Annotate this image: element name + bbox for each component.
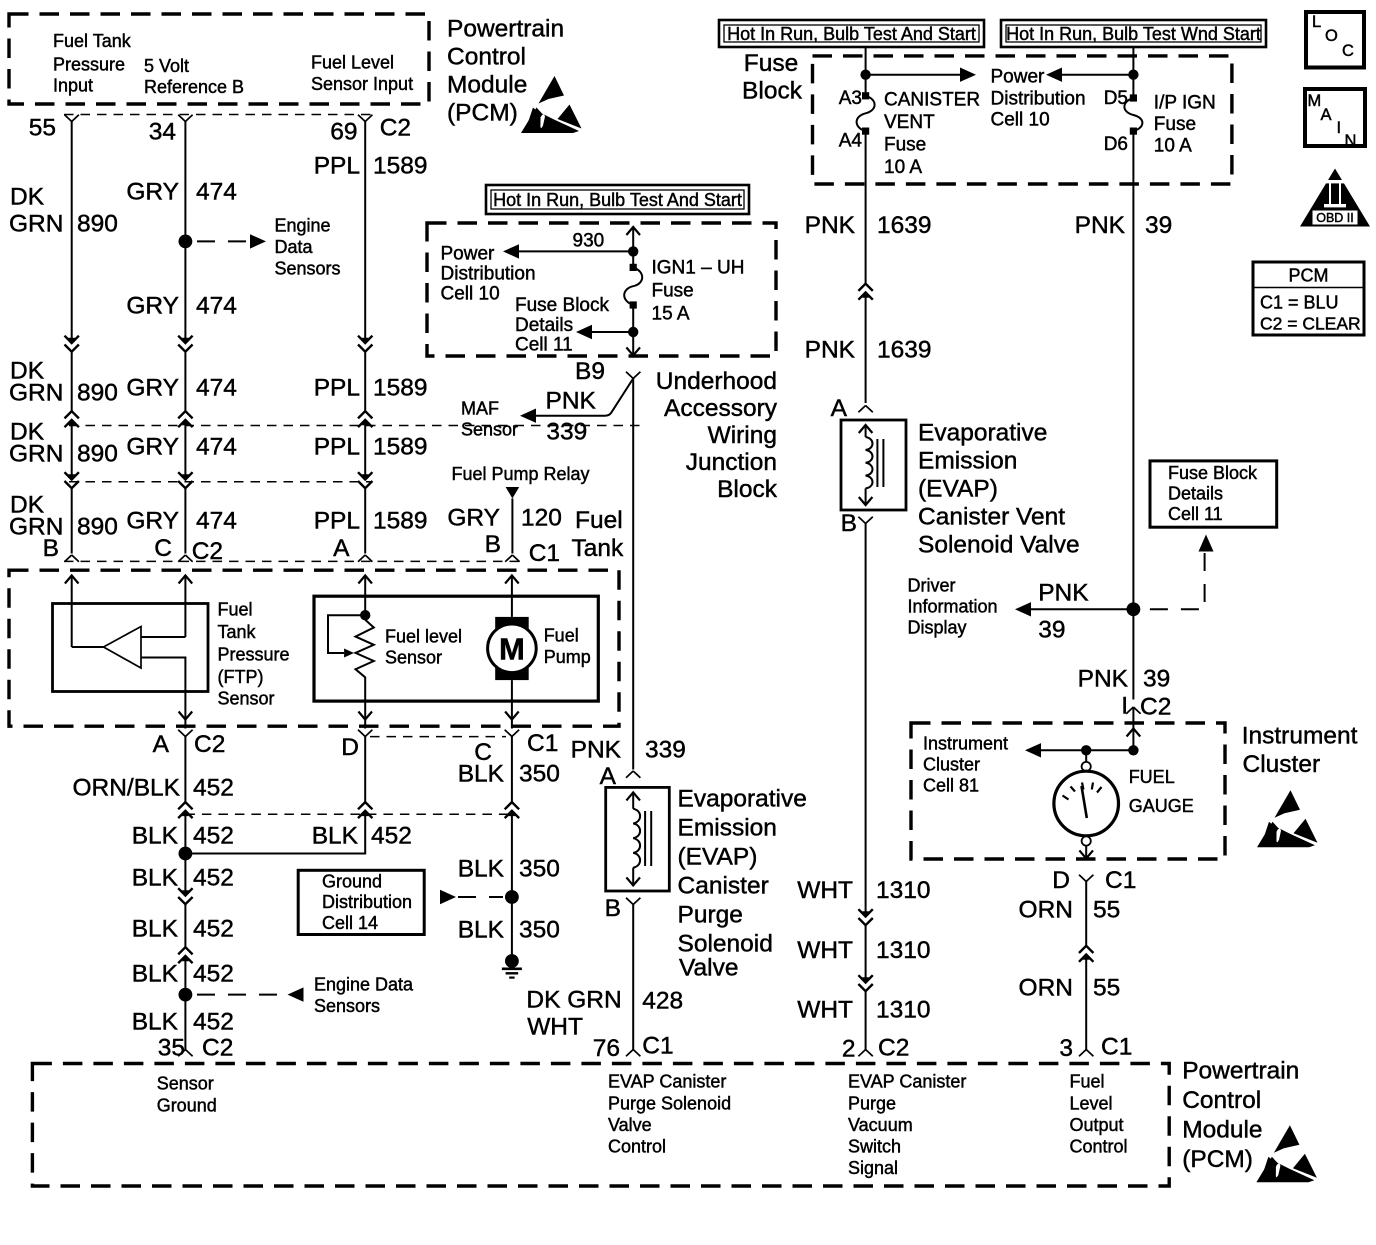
- label MAF Sensor: [461, 399, 518, 440]
- svg-text:Underhood: Underhood: [656, 368, 777, 395]
- svg-text:BLK: BLK: [132, 1009, 179, 1036]
- arrowhead up fuel level sensor: [358, 576, 372, 584]
- svg-text:C1: C1: [529, 540, 560, 567]
- svg-text:BLK: BLK: [132, 865, 179, 892]
- svg-text:Level: Level: [1070, 1094, 1113, 1114]
- wire from fuel level sensor D down: [364, 737, 366, 803]
- label BLK 350 row3: [458, 917, 560, 944]
- svg-text:Control: Control: [1182, 1087, 1261, 1114]
- svg-text:1310: 1310: [876, 937, 931, 964]
- svg-text:WHT: WHT: [797, 877, 853, 904]
- svg-text:Fuse Block: Fuse Block: [515, 295, 609, 316]
- svg-text:PPL: PPL: [314, 508, 360, 535]
- label Power Distribution Cell 10 (fuse block): [991, 67, 1086, 131]
- label PPL 1589 row0: [314, 153, 428, 180]
- svg-text:BLK: BLK: [132, 961, 179, 988]
- svg-text:76: 76: [593, 1035, 620, 1062]
- svg-text:GRY: GRY: [447, 505, 500, 532]
- wire into fuel level sensor: [364, 575, 366, 620]
- wire fuse bottom: [632, 305, 634, 356]
- dashed leader to fuse block details: [1144, 553, 1205, 609]
- svg-text:PCM: PCM: [1289, 266, 1329, 286]
- svg-text:C1: C1: [1105, 867, 1136, 894]
- label CANISTER VENT Fuse 10 A: [884, 90, 980, 179]
- svg-text:DK GRN: DK GRN: [526, 987, 621, 1014]
- junction dot PNK 39: [1127, 602, 1141, 616]
- svg-text:890: 890: [77, 514, 118, 541]
- svg-text:Instrument: Instrument: [1242, 723, 1358, 750]
- svg-text:PNK: PNK: [805, 337, 856, 364]
- label 5 Volt Reference B: [144, 56, 244, 97]
- instrument cluster box (dashed): [911, 723, 1225, 859]
- arrowhead up fuel pump: [505, 576, 519, 584]
- arrowhead up to header: [626, 227, 640, 235]
- svg-text:Tank: Tank: [218, 622, 257, 642]
- svg-text:Engine: Engine: [275, 216, 331, 236]
- pin 34: [149, 115, 193, 146]
- svg-text:Data: Data: [275, 237, 314, 257]
- svg-text:35: 35: [158, 1035, 185, 1062]
- FTP sensor box: [53, 604, 209, 692]
- svg-text:(EVAP): (EVAP): [678, 844, 758, 871]
- pin A vent solenoid: [831, 395, 873, 422]
- fuel pump motor: [495, 617, 529, 680]
- svg-text:Switch: Switch: [848, 1137, 901, 1157]
- label Fuel Level Output Control: [1070, 1072, 1128, 1157]
- label Powertrain Control Module (PCM) top: [447, 16, 564, 127]
- junction dot power distribution left: [860, 70, 870, 80]
- svg-text:Cell 10: Cell 10: [991, 110, 1050, 131]
- svg-text:B: B: [605, 895, 621, 922]
- svg-text:GRN: GRN: [9, 380, 63, 407]
- svg-text:Pressure: Pressure: [53, 55, 125, 75]
- wire PNK 1639 segment 1: [865, 131, 867, 284]
- junction dot fuse block details: [628, 327, 638, 337]
- svg-text:WHT: WHT: [797, 997, 853, 1024]
- svg-text:474: 474: [196, 508, 237, 535]
- svg-text:(PCM): (PCM): [447, 100, 518, 127]
- label Instrument Cluster Cell 81: [923, 734, 1008, 796]
- svg-text:OBD II: OBD II: [1316, 211, 1354, 225]
- svg-text:Distribution: Distribution: [441, 264, 536, 285]
- fuse block box (dashed): [813, 56, 1232, 184]
- label Powertrain Control Module (PCM) bottom: [1182, 1058, 1299, 1174]
- svg-text:474: 474: [196, 434, 237, 461]
- svg-text:Cell 11: Cell 11: [1168, 504, 1223, 524]
- svg-text:1589: 1589: [373, 375, 428, 402]
- wire into fuel pump: [511, 575, 513, 617]
- wire canister vent fuse top: [865, 47, 867, 96]
- svg-text:Wiring: Wiring: [708, 422, 777, 449]
- svg-text:PPL: PPL: [314, 153, 360, 180]
- pin D below tank: [341, 730, 372, 761]
- svg-text:Display: Display: [908, 618, 967, 638]
- arrow up to fuse block details: [1199, 535, 1214, 552]
- svg-text:PNK: PNK: [546, 388, 597, 415]
- svg-text:DK: DK: [10, 184, 45, 211]
- pin B9: [575, 358, 640, 385]
- fuel sender solid box: [314, 596, 598, 701]
- svg-text:BLK: BLK: [458, 761, 505, 788]
- wire GRY 120: [511, 499, 513, 554]
- wire BLK 452 main segment 3: [184, 956, 186, 1050]
- svg-text:452: 452: [193, 775, 234, 802]
- arrowhead down fuel level sensor: [358, 712, 372, 720]
- svg-text:55: 55: [1093, 897, 1120, 924]
- svg-text:Fuel level: Fuel level: [385, 627, 462, 647]
- MAIN box: [1305, 89, 1365, 150]
- wire I/P IGN fuse top: [1132, 47, 1134, 98]
- pin D / C1 gauge: [1052, 867, 1136, 894]
- svg-text:350: 350: [519, 761, 560, 788]
- svg-text:Fuel Level: Fuel Level: [311, 53, 394, 73]
- label Sensor Ground: [157, 1074, 217, 1116]
- pin 69 / C2: [330, 115, 411, 146]
- label DK GRN 890 row2: [9, 358, 118, 407]
- arrowhead down FTP output: [179, 712, 193, 720]
- svg-text:IGN1 – UH: IGN1 – UH: [652, 258, 745, 279]
- svg-text:D: D: [341, 734, 359, 761]
- label PNK 1639 row1: [805, 212, 932, 239]
- svg-text:Ground: Ground: [157, 1096, 217, 1116]
- svg-text:PNK: PNK: [1075, 212, 1126, 239]
- label PPL 1589 row4: [314, 508, 428, 535]
- label Fuel Tank Pressure Input: [53, 31, 132, 96]
- break up PNK 1639: [858, 284, 872, 300]
- break symbols row C (down): [65, 472, 79, 488]
- wire fuel level sensor down: [364, 701, 366, 729]
- svg-text:ORN: ORN: [1019, 975, 1073, 1002]
- wire PNK 1639 segment 2: [865, 292, 867, 403]
- wire gauge bottom: [1085, 846, 1087, 859]
- pin row dashed line at tank top: [64, 560, 519, 562]
- svg-text:339: 339: [645, 737, 686, 764]
- svg-text:452: 452: [193, 823, 234, 850]
- svg-text:930: 930: [573, 231, 605, 252]
- arrow to driver information display: [1015, 602, 1031, 616]
- label BLK 452 row2: [132, 865, 234, 892]
- svg-text:Tank: Tank: [572, 535, 625, 562]
- svg-text:1639: 1639: [877, 337, 932, 364]
- svg-text:Vacuum: Vacuum: [848, 1115, 913, 1135]
- wire PPL 1589 segment 4: [364, 488, 366, 553]
- label Fuse Block: [742, 50, 803, 105]
- label GRY 120: [447, 505, 562, 532]
- label Underhood Accessory Wiring Junction Block: [656, 368, 778, 503]
- svg-text:MAF: MAF: [461, 399, 499, 419]
- label Power Distribution Cell 10 (left): [441, 244, 536, 305]
- svg-text:Cluster: Cluster: [923, 755, 980, 775]
- fuse IGN1-UH: [630, 264, 637, 271]
- ESD symbol top: [521, 76, 582, 133]
- junction dot BLK 452: [179, 847, 193, 861]
- potentiometer wiper: [328, 615, 365, 653]
- label DK GRN 890 row4: [9, 492, 118, 541]
- svg-text:BLK: BLK: [458, 917, 505, 944]
- svg-text:Fuel: Fuel: [1070, 1072, 1105, 1092]
- label PNK 339 MAF: [546, 388, 597, 446]
- wire ORN 55 segment 2: [1085, 954, 1087, 1049]
- fuel level sensor resistor: [356, 620, 374, 701]
- wire BLK 350 segment 2: [511, 811, 513, 962]
- svg-text:N: N: [1345, 132, 1357, 150]
- wire GRY 474 segment 1: [184, 122, 186, 344]
- svg-text:A: A: [333, 535, 350, 562]
- wire DK GRN 890 segment 3: [71, 420, 73, 480]
- svg-text:1310: 1310: [876, 877, 931, 904]
- arrow to MAF sensor: [520, 409, 536, 423]
- label I/P IGN Fuse 10 A: [1154, 93, 1216, 157]
- svg-text:ORN: ORN: [1019, 897, 1073, 924]
- svg-text:474: 474: [196, 375, 237, 402]
- svg-text:Details: Details: [1168, 484, 1223, 504]
- line to power distribution right arrow: [866, 74, 960, 76]
- break up BLK 452: [178, 947, 192, 963]
- wire DK GRN 890 segment 4: [71, 488, 73, 553]
- arrowhead down exiting junction block: [626, 347, 640, 355]
- svg-text:Fuel: Fuel: [575, 507, 623, 534]
- svg-text:890: 890: [77, 441, 118, 468]
- svg-text:120: 120: [521, 505, 562, 532]
- bus dashed line 1: [69, 425, 640, 427]
- label PNK 39 row1: [1075, 212, 1173, 239]
- bus dashed line bottom: [185, 813, 513, 815]
- svg-text:Hot In Run, Bulb Test And Star: Hot In Run, Bulb Test And Start: [727, 24, 976, 44]
- svg-text:Control: Control: [447, 44, 526, 71]
- wire PNK 339 vertical: [632, 379, 634, 770]
- svg-text:452: 452: [371, 823, 412, 850]
- label WHT 1310 row1: [797, 877, 930, 904]
- header box Hot In Run, Bulb Test And Start (center): [486, 185, 749, 214]
- svg-text:B9: B9: [575, 358, 605, 385]
- break up ORN/BLK to BLK: [178, 802, 192, 818]
- svg-text:Hot In Run, Bulb Test Wnd Star: Hot In Run, Bulb Test Wnd Start: [1006, 24, 1261, 44]
- arrow power distribution (right): [960, 68, 976, 82]
- label Fuel Tank: [572, 507, 625, 562]
- OBD II symbol: [1300, 169, 1370, 227]
- pin B into fuel tank: [43, 535, 79, 562]
- svg-text:452: 452: [193, 1009, 234, 1036]
- underhood junction block box (dashed): [427, 223, 776, 356]
- svg-text:55: 55: [29, 115, 56, 142]
- fuse CANISTER VENT: [862, 92, 869, 99]
- svg-text:Block: Block: [717, 476, 778, 503]
- svg-text:C2: C2: [380, 115, 411, 142]
- label PPL 1589 row2: [314, 375, 428, 402]
- wire into FTP sensor pin B: [71, 575, 73, 647]
- break down BLK 452: [178, 888, 192, 904]
- label BLK 350 row1: [458, 761, 560, 788]
- label BLK 452 branch: [312, 823, 412, 850]
- line from wire2 to left arrow: [1062, 74, 1133, 76]
- svg-text:34: 34: [149, 119, 176, 146]
- pin B purge solenoid: [605, 895, 641, 922]
- op-amp triangle FTP: [104, 627, 142, 669]
- break up ORN 55: [1079, 946, 1093, 962]
- svg-text:Sensor Input: Sensor Input: [311, 74, 413, 94]
- svg-text:Valve: Valve: [679, 955, 738, 982]
- pin 35 / C2: [158, 1035, 234, 1062]
- svg-text:GRY: GRY: [126, 293, 179, 320]
- wire BLK 452 branch from D: [185, 811, 365, 854]
- svg-text:Reference B: Reference B: [144, 77, 244, 97]
- PCM bottom box (dashed): [32, 1064, 1169, 1187]
- svg-text:Pump: Pump: [544, 647, 591, 667]
- svg-text:Emission: Emission: [678, 815, 777, 842]
- svg-text:GRY: GRY: [126, 179, 179, 206]
- line to driver information display: [1031, 608, 1133, 610]
- svg-text:Pressure: Pressure: [218, 645, 290, 665]
- wire DK GRN WHT 428: [632, 905, 634, 1050]
- label GRY 474 row3: [126, 434, 237, 461]
- junction to engine data sensors: [179, 235, 193, 249]
- pin C / C1 below tank: [474, 730, 558, 766]
- svg-text:D: D: [1052, 867, 1070, 894]
- pin 76 / C1: [593, 1033, 674, 1063]
- svg-text:Sensor: Sensor: [218, 689, 275, 709]
- MAF sensor branch: [534, 379, 633, 416]
- svg-text:Fuel Tank: Fuel Tank: [53, 31, 132, 51]
- svg-text:C2: C2: [202, 1035, 233, 1062]
- svg-text:1589: 1589: [373, 153, 428, 180]
- svg-text:Fuse Block: Fuse Block: [1168, 463, 1258, 483]
- fuel gauge: [1054, 762, 1119, 846]
- svg-text:Junction: Junction: [686, 449, 777, 476]
- arrow engine data sensors bottom: [288, 987, 304, 1001]
- svg-text:Instrument: Instrument: [923, 734, 1008, 754]
- arrowhead down fuel pump: [505, 712, 519, 720]
- svg-text:PNK: PNK: [805, 212, 856, 239]
- svg-text:428: 428: [642, 988, 683, 1015]
- svg-text:Sensor: Sensor: [385, 648, 442, 668]
- label ORN 55 row2: [1019, 975, 1121, 1002]
- svg-text:A4: A4: [839, 131, 863, 152]
- svg-text:B: B: [485, 531, 501, 558]
- svg-text:Fuse: Fuse: [652, 281, 694, 302]
- wire WHT 1310 segment 3: [865, 991, 867, 1049]
- svg-text:A3: A3: [839, 88, 862, 109]
- svg-text:350: 350: [519, 856, 560, 883]
- label BLK 452 row1: [132, 823, 234, 850]
- svg-text:Details: Details: [515, 315, 573, 336]
- fuel tank enclosure (dashed): [9, 570, 619, 726]
- label PNK 339: [571, 737, 686, 764]
- label Engine Data Sensors top: [275, 216, 341, 279]
- svg-text:10 A: 10 A: [884, 157, 922, 178]
- svg-text:GRY: GRY: [126, 508, 179, 535]
- svg-text:15 A: 15 A: [652, 304, 690, 325]
- svg-text:WHT: WHT: [797, 937, 853, 964]
- svg-text:350: 350: [519, 917, 560, 944]
- svg-text:474: 474: [196, 179, 237, 206]
- line to power distribution: [519, 250, 633, 252]
- pin A into fuel tank: [333, 535, 372, 562]
- junction dot power distribution right: [1128, 70, 1138, 80]
- svg-text:69: 69: [330, 119, 357, 146]
- svg-text:1639: 1639: [877, 212, 932, 239]
- svg-text:FUEL: FUEL: [1129, 767, 1175, 787]
- label Driver Information Display: [908, 576, 998, 638]
- svg-text:Output: Output: [1070, 1115, 1124, 1135]
- pin 55: [29, 115, 79, 142]
- svg-text:A: A: [153, 731, 170, 758]
- svg-text:A: A: [600, 763, 617, 790]
- svg-text:Sensor: Sensor: [157, 1074, 214, 1094]
- LOC box: [1306, 12, 1364, 68]
- fuel pump relay arrow: [506, 487, 520, 499]
- svg-text:B: B: [43, 535, 59, 562]
- svg-text:C2: C2: [878, 1035, 909, 1062]
- label BLK 452 row3: [132, 916, 234, 943]
- svg-text:(EVAP): (EVAP): [918, 476, 998, 503]
- label PNK 1639 row2: [805, 337, 932, 364]
- svg-text:Purge: Purge: [678, 902, 743, 929]
- svg-text:Canister Vent: Canister Vent: [918, 504, 1065, 531]
- svg-text:BLK: BLK: [458, 856, 505, 883]
- label PNK 39 row2: [1078, 666, 1171, 693]
- svg-text:Engine Data: Engine Data: [314, 975, 414, 995]
- svg-text:C2: C2: [1140, 694, 1171, 721]
- label GRY 474 row1: [126, 293, 237, 320]
- label BLK 350 row2: [458, 856, 560, 883]
- break up BLK 350: [505, 802, 519, 818]
- arrowhead up FTP C: [179, 576, 193, 584]
- label DK GRN 890 row0: [9, 184, 118, 238]
- svg-text:10 A: 10 A: [1154, 136, 1192, 157]
- arrowhead up FTP B: [65, 576, 79, 584]
- svg-text:Accessory: Accessory: [664, 395, 778, 422]
- label Fuel level Sensor: [385, 627, 462, 668]
- svg-text:(PCM): (PCM): [1182, 1146, 1253, 1173]
- connector pin row dashed line: [64, 114, 374, 116]
- svg-text:EVAP Canister: EVAP Canister: [848, 1072, 966, 1092]
- svg-text:Evaporative: Evaporative: [678, 786, 807, 813]
- EVAP canister purge solenoid valve: [606, 787, 670, 891]
- label PNK 39 driver: [1038, 580, 1089, 644]
- svg-text:Distribution: Distribution: [991, 89, 1086, 110]
- wire GRY 474 segment 3: [184, 420, 186, 480]
- svg-text:EVAP Canister: EVAP Canister: [608, 1072, 726, 1092]
- svg-text:ORN/BLK: ORN/BLK: [72, 775, 180, 802]
- wire PPL 1589 segment 1: [364, 122, 366, 344]
- svg-text:BLK: BLK: [132, 823, 179, 850]
- svg-text:Purge Solenoid: Purge Solenoid: [608, 1094, 731, 1114]
- svg-text:Emission: Emission: [918, 448, 1017, 475]
- svg-text:Module: Module: [447, 72, 527, 99]
- svg-text:C1: C1: [527, 730, 558, 757]
- pin B / C1 fuel tank: [485, 531, 560, 567]
- arrow from ground distribution: [440, 890, 456, 904]
- junction dot at sensor top: [360, 610, 370, 620]
- junction dot engine data sensors bottom: [179, 988, 193, 1002]
- svg-text:Canister: Canister: [678, 873, 769, 900]
- break symbols row B (up): [65, 411, 79, 427]
- label BLK 452 row4: [132, 961, 234, 988]
- svg-text:PNK: PNK: [1078, 666, 1129, 693]
- svg-text:Block: Block: [742, 78, 803, 105]
- wire BLK 452 main segment 2: [184, 904, 186, 947]
- svg-text:Cell 81: Cell 81: [923, 776, 979, 796]
- svg-text:I/P IGN: I/P IGN: [1154, 93, 1216, 114]
- pin C / C2 into fuel tank: [154, 535, 223, 565]
- wire BLK 350 from pin C: [511, 737, 513, 803]
- svg-text:Sensor: Sensor: [461, 420, 518, 440]
- label Instrument Cluster (right): [1242, 723, 1358, 779]
- svg-text:Control: Control: [1070, 1137, 1128, 1157]
- svg-text:CANISTER: CANISTER: [884, 90, 980, 111]
- arrowhead down gauge: [1079, 850, 1093, 858]
- svg-text:Signal: Signal: [848, 1158, 898, 1178]
